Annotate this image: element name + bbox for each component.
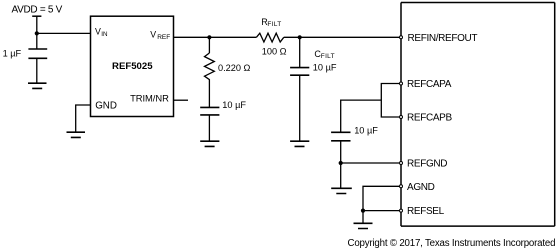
wire AGND to REFSEL net [363,186,399,210]
pin REFCAPB circle [400,116,403,119]
capacitor C_FILT plates [290,68,309,76]
svg-text:REFGND: REFGND [407,159,447,170]
wire VREF to REFIN/REFOUT [174,36,400,38]
svg-text:0.220 Ω: 0.220 Ω [218,63,251,73]
svg-text:REFCAPA: REFCAPA [407,79,452,90]
svg-text:REFSEL: REFSEL [407,206,445,217]
wire REFSEL node to ground [362,211,364,224]
svg-text:FILT: FILT [321,53,335,60]
resistor 0.220 ohm zigzag [205,53,215,83]
svg-text:AGND: AGND [407,182,435,193]
ground under GND pin [67,132,86,137]
svg-text:100 Ω: 100 Ω [262,47,287,57]
wire node to REFSEL pin [363,210,399,212]
svg-text:AVDD = 5 V: AVDD = 5 V [12,4,63,15]
node junction dot REFGND [339,161,343,165]
pin REFIN/REFOUT circle [400,36,403,39]
capacitor C1 1uF plates [28,49,47,58]
wire node to VIN pin [37,32,91,34]
wire node to ground [340,163,342,188]
ground under 10uF [200,141,219,146]
svg-text:IN: IN [101,31,108,38]
node junction dot REFSEL [361,209,365,213]
svg-text:V: V [95,26,101,36]
ground under REFSEL node [354,223,373,228]
capacitor 10uF (noise reduction) plates [200,107,219,115]
ADC device box U2 [401,3,555,227]
wire TRIM/NR stub [174,99,189,101]
pin REFSEL circle [400,209,403,212]
ground under C_FILT [290,141,309,146]
ground under REFGND node [331,188,352,193]
wire C1 to ground [36,58,38,83]
svg-text:10 µF: 10 µF [313,62,337,72]
svg-text:REF: REF [157,34,170,41]
wire GND pin left [76,105,91,132]
power bar symbol AVDD [32,15,41,17]
svg-text:REF5025: REF5025 [112,61,153,72]
svg-text:TRIM/NR: TRIM/NR [130,92,169,103]
wire cap down to REFGND net [340,141,342,163]
svg-text:10 µF: 10 µF [354,125,378,135]
svg-text:GND: GND [95,101,117,112]
svg-text:FILT: FILT [267,21,281,28]
wire node down to R 0.220 [208,37,210,53]
capacitor 10uF (REFCAP) plates [331,132,350,141]
node junction dot C_FILT [298,35,302,39]
wire bracket tap to 10uF cap [341,100,382,132]
svg-text:Copyright © 2017, Texas Instru: Copyright © 2017, Texas Instruments Inco… [348,238,556,249]
svg-text:V: V [150,30,156,40]
wire resistor to cap 10uF [208,83,210,107]
svg-text:REFCAPB: REFCAPB [407,113,452,124]
svg-text:REFIN/REFOUT: REFIN/REFOUT [408,33,478,44]
svg-text:10 µF: 10 µF [222,100,246,110]
pin REFCAPA circle [400,82,403,85]
node junction dot at AVDD [35,31,39,35]
wire node to REFGND pin [341,162,400,164]
wire cap to ground [208,115,210,141]
svg-text:1 µF: 1 µF [3,49,22,59]
wire node down to C_FILT [299,37,301,67]
node junction dot VREF/0.22ohm [207,35,211,39]
wire bracket REFCAPA to REFCAPB [381,84,399,118]
wire power bar down to node [36,16,38,49]
op-amp U1 REF5025 box [91,16,174,116]
pin AGND circle [400,185,403,188]
resistor R_FILT zigzag [256,33,283,42]
wire C_FILT to ground [299,75,301,141]
ground under C1 [28,83,47,88]
pin REFGND circle [400,162,403,165]
